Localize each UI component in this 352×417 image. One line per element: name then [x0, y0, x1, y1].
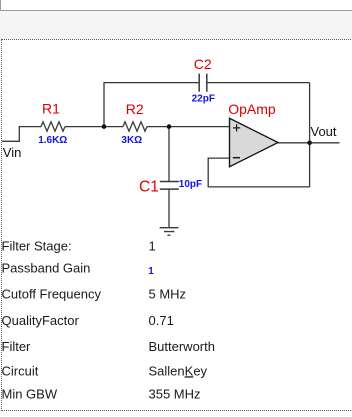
svg-text:Butterworth: Butterworth	[149, 339, 215, 354]
toolbar remnant (bottom of combo box at top)	[0, 0, 352, 11]
wire output	[278, 142, 340, 144]
node A	[102, 124, 107, 129]
svg-text:C1: C1	[139, 179, 159, 196]
svg-text:Filter Stage:: Filter Stage:	[2, 239, 72, 254]
wire Vin entry	[2, 127, 41, 142]
gray band below toolbar	[0, 11, 352, 39]
wire node A up to C2	[104, 83, 199, 127]
svg-text:Circuit: Circuit	[2, 363, 39, 378]
wire node B down to C1	[168, 127, 170, 182]
capacitor C1	[160, 182, 179, 190]
svg-text:1.6KΩ: 1.6KΩ	[38, 135, 67, 146]
svg-text:22pF: 22pF	[192, 93, 215, 104]
svg-text:5 MHz: 5 MHz	[149, 287, 187, 302]
svg-text:Passband Gain: Passband Gain	[2, 261, 91, 276]
capacitor C2	[199, 74, 207, 92]
resistor R1	[41, 122, 65, 131]
svg-text:C2: C2	[194, 56, 212, 72]
op-amp + pin mark	[233, 124, 240, 131]
svg-text:1: 1	[149, 239, 156, 254]
svg-text:OpAmp: OpAmp	[228, 101, 276, 117]
wire right vertical (C2/feedback to output node)	[309, 83, 311, 187]
svg-text:QualityFactor: QualityFactor	[2, 313, 80, 328]
svg-text:Vout: Vout	[311, 124, 337, 139]
wire C1 to ground	[168, 189, 170, 227]
wire C2 to right vertical	[207, 82, 309, 84]
svg-text:10pF: 10pF	[179, 179, 202, 190]
svg-text:Filter: Filter	[2, 339, 32, 354]
table text	[2, 239, 215, 402]
op-amp - pin mark	[233, 157, 240, 159]
svg-text:355 MHz: 355 MHz	[149, 387, 201, 402]
wire node A to R2	[104, 126, 123, 128]
svg-text:Min GBW: Min GBW	[2, 387, 58, 402]
svg-text:Cutoff Frequency: Cutoff Frequency	[2, 287, 102, 302]
wire R2 to node B	[147, 126, 169, 128]
ground	[160, 228, 179, 236]
wire feedback from - input	[208, 158, 309, 187]
op-amp U1 triangle	[230, 118, 279, 166]
svg-text:Vin: Vin	[3, 145, 22, 160]
svg-text:3KΩ: 3KΩ	[121, 135, 142, 146]
wire R1 to node A	[65, 126, 104, 128]
node Vout junction	[307, 141, 312, 146]
svg-text:R1: R1	[42, 100, 60, 116]
svg-text:0.71: 0.71	[149, 313, 174, 328]
wire node B to op-amp + input	[169, 126, 230, 128]
svg-text:1: 1	[148, 266, 154, 277]
svg-text:SallenKey: SallenKey	[149, 363, 208, 378]
resistor R2	[123, 122, 147, 131]
node B	[167, 124, 172, 129]
svg-text:R2: R2	[126, 101, 144, 117]
